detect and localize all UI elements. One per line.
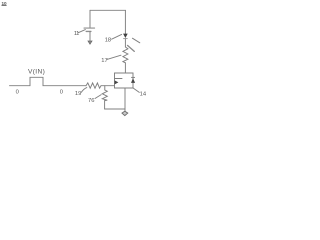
wire top rail xyxy=(90,9,125,11)
transistor 14 mid line xyxy=(115,78,123,80)
body diode bar xyxy=(131,76,135,78)
label 10 underline xyxy=(2,5,7,7)
svg-text:V(IN): V(IN) xyxy=(28,68,45,75)
leader label 11 xyxy=(78,30,85,33)
diode 18 cathode bar xyxy=(123,38,127,40)
svg-text:19: 19 xyxy=(75,91,81,97)
input waveform V(IN) pulse xyxy=(10,77,87,85)
wire resistor 17 to drain xyxy=(124,63,126,73)
wire resistor 76 bottom stub xyxy=(104,101,106,109)
transistor 14 top electrode xyxy=(115,72,134,74)
wire diode drop xyxy=(124,10,126,33)
leader label 17 xyxy=(107,55,121,59)
ground arrow bottom xyxy=(122,111,128,115)
svg-text:11: 11 xyxy=(74,31,79,37)
svg-text:10: 10 xyxy=(2,1,8,6)
leader slash upper right xyxy=(132,38,139,43)
svg-text:0: 0 xyxy=(16,90,19,96)
leader label 18 xyxy=(112,34,122,39)
battery 11 bottom plate xyxy=(86,30,91,32)
leader label 14 xyxy=(134,88,140,92)
wire battery to ground xyxy=(89,32,91,41)
wire battery drop xyxy=(89,10,91,27)
transistor body diode line xyxy=(132,73,134,88)
wire source down xyxy=(124,88,126,109)
ground arrow under battery xyxy=(88,41,92,44)
svg-text:18: 18 xyxy=(105,37,111,43)
resistor 19 xyxy=(86,83,101,88)
transistor 14 bottom electrode xyxy=(115,87,134,89)
leader label 19 xyxy=(81,88,87,93)
resistor 17 xyxy=(123,47,128,63)
wire gate lead xyxy=(101,85,115,87)
wire ground stub xyxy=(124,109,126,111)
svg-text:17: 17 xyxy=(101,58,107,64)
wire bottom rail xyxy=(105,108,125,110)
leader slash lower right xyxy=(128,45,135,51)
diode 18 xyxy=(123,34,128,38)
wire diode to resistor 17 xyxy=(124,39,126,47)
transistor gate arrow xyxy=(115,80,119,84)
svg-text:0: 0 xyxy=(60,90,63,96)
battery 11 top plate xyxy=(84,27,95,29)
leader label 76 xyxy=(95,95,101,99)
transistor 14 gate bar xyxy=(114,73,116,88)
svg-text:76: 76 xyxy=(88,98,94,104)
svg-text:14: 14 xyxy=(140,92,146,98)
wire resistor 76 top stub xyxy=(104,86,106,90)
resistor 76 xyxy=(102,90,107,101)
body diode triangle xyxy=(131,78,135,83)
